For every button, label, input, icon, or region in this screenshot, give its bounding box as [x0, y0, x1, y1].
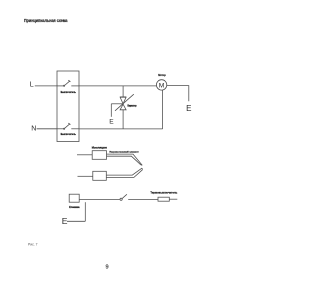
insulator block 2 — [93, 171, 107, 180]
thermal fuse body — [158, 197, 169, 201]
insulator block 1 — [92, 151, 106, 160]
heating element label: Нагревательный элемент — [110, 150, 140, 153]
wire heater 2 lead — [78, 175, 93, 177]
switch S1b (line contact) — [57, 123, 79, 129]
switch S1a label: Выключатель — [61, 90, 77, 94]
wire motor down to N bus — [162, 90, 164, 129]
wire to earth E bottom — [67, 202, 85, 221]
svg-text:Варистор: Варистор — [128, 104, 137, 107]
wire gate to earth — [111, 104, 123, 117]
node L — [30, 81, 34, 89]
page number — [105, 265, 108, 271]
svg-text:Изоляция: Изоляция — [92, 145, 108, 149]
wire terminal to thermal switch — [79, 199, 120, 201]
wire L input — [35, 85, 57, 87]
wire motor to earth E (top right) — [167, 86, 189, 102]
terminal label: Клемма — [69, 205, 80, 209]
svg-text:L: L — [30, 81, 34, 89]
wire N bus — [79, 128, 163, 130]
insulator label: Изоляция — [92, 145, 108, 149]
switch S1a (line contact) — [57, 80, 79, 86]
svg-text:Термовыключатель: Термовыключатель — [150, 190, 177, 194]
varistor RU1 label — [128, 104, 137, 107]
node E bottom — [62, 216, 68, 226]
wire heater 1 lead — [77, 154, 92, 156]
svg-text:M: M — [159, 83, 165, 90]
svg-text:E: E — [109, 119, 114, 126]
svg-text:E: E — [186, 104, 191, 113]
node E middle — [109, 119, 114, 126]
terminal block — [69, 194, 79, 202]
wire thermal fuse out — [169, 198, 177, 200]
svg-text:N: N — [31, 124, 36, 132]
node E top right — [186, 104, 191, 113]
thermal fuse label: Термовыключатель — [150, 190, 177, 194]
svg-text:Принципиальная схема: Принципиальная схема — [24, 18, 68, 23]
wire middle branch (bottom) — [122, 110, 124, 129]
svg-text:Выключатель: Выключатель — [61, 90, 77, 94]
figure caption: Рис. 7 — [28, 242, 38, 247]
svg-text:Нагревательный элемент: Нагревательный элемент — [110, 150, 140, 153]
heating element 2 (hairpin) — [106, 168, 142, 177]
switch S1b label: Выключатель — [61, 132, 77, 136]
wire L bus to motor — [79, 85, 156, 87]
wire N input — [37, 128, 57, 130]
motor label: Мотор — [158, 73, 166, 77]
svg-text:9: 9 — [105, 265, 108, 271]
svg-text:Мотор: Мотор — [158, 73, 166, 77]
wire to thermal fuse — [128, 198, 158, 200]
wire middle branch (top) — [122, 86, 124, 97]
svg-text:Выключатель: Выключатель — [61, 132, 77, 136]
switch block box — [57, 71, 79, 142]
varistor RU1 (bidirectional symbol with strike) — [115, 94, 134, 111]
thermal switch contact — [120, 194, 127, 200]
svg-text:Клемма: Клемма — [69, 205, 80, 209]
title: Принципиальная схема — [24, 18, 68, 23]
heating element 1 (hairpin) — [107, 154, 143, 165]
motor M1 — [156, 80, 166, 90]
svg-text:Рис. 7: Рис. 7 — [28, 242, 38, 247]
svg-text:E: E — [62, 216, 68, 226]
node N — [31, 124, 36, 132]
